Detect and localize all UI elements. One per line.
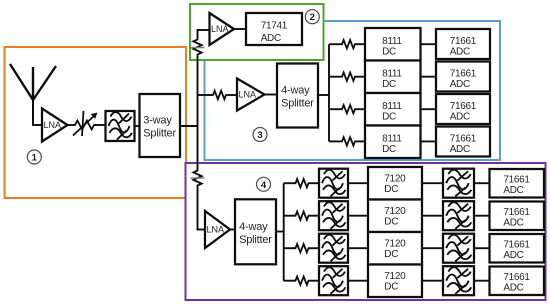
variable attenuator AT1	[73, 111, 96, 136]
wire R31 to DC1	[357, 43, 366, 45]
wire R4 to LNA4 input	[197, 187, 207, 230]
group box 1 (orange) region outline	[5, 47, 187, 198]
wire bus to R32	[329, 76, 340, 78]
ADC U32a 71661	[436, 62, 490, 92]
svg-text:DC: DC	[382, 47, 396, 58]
svg-text:71661: 71661	[503, 174, 530, 185]
svg-text:LNA: LNA	[211, 24, 229, 34]
group box 2 (green) region outline	[190, 4, 324, 60]
svg-text:DC: DC	[382, 144, 396, 155]
svg-text:71661: 71661	[450, 69, 477, 80]
wire DC to filter b	[422, 215, 444, 217]
svg-text:8111: 8111	[382, 101, 402, 112]
wire LNA3 to splitter	[264, 94, 278, 96]
svg-text:4-way: 4-way	[281, 85, 310, 97]
wire filter to splitter	[134, 125, 140, 127]
downconverter U34 8111 DC	[365, 126, 421, 159]
filter FL44a (band-pass)	[319, 266, 348, 295]
wire vertical distribution bus	[197, 56, 199, 171]
filter FL44b (band-pass)	[443, 266, 474, 295]
ADC U42a 71661	[490, 202, 545, 231]
svg-text:4-way: 4-way	[239, 221, 268, 233]
ADC U44a 71661	[490, 267, 545, 296]
wire DC2 to ADC2	[421, 76, 438, 78]
ADC U34a 71661	[436, 127, 490, 157]
resistor R32 (branch pad)	[340, 73, 357, 81]
circled label 4	[257, 177, 271, 191]
wire attenuator to filter	[95, 124, 106, 126]
svg-text:2: 2	[310, 12, 315, 23]
op-amp LNA3 (region 3 low-noise amp)	[237, 79, 265, 111]
svg-text:DC: DC	[384, 184, 398, 195]
wire bus to R41	[284, 182, 295, 184]
wire region 4 branch bus	[283, 183, 285, 281]
svg-text:Splitter: Splitter	[281, 98, 314, 110]
svg-text:LNA: LNA	[207, 225, 225, 235]
filter FL41a (band-pass)	[319, 169, 348, 198]
svg-text:LNA: LNA	[239, 90, 257, 100]
wire bus to R42	[284, 215, 295, 217]
filter FL42a (band-pass)	[319, 201, 348, 230]
antenna ANT1	[10, 64, 56, 125]
ADC U33a 71661	[436, 94, 490, 124]
wire LNA1 to attenuator	[66, 124, 74, 126]
wire bus to R33	[329, 108, 340, 110]
svg-text:Splitter: Splitter	[239, 234, 272, 246]
wire FL44a to DC	[348, 280, 369, 282]
downconverter U44 7120 DC	[368, 265, 422, 298]
svg-text:ADC: ADC	[503, 217, 523, 228]
wire LNA2 to ADC	[233, 28, 247, 30]
wire R32 to DC2	[357, 76, 366, 78]
3-way splitter SP1	[140, 94, 181, 157]
attenuator R4 cross line	[191, 177, 205, 179]
svg-text:ADC: ADC	[261, 33, 281, 44]
filter FL43b (band-pass)	[443, 234, 474, 263]
svg-text:71661: 71661	[450, 133, 477, 144]
svg-text:ADC: ADC	[450, 47, 470, 58]
wire LNA4 to splitter	[229, 229, 236, 231]
svg-text:71661: 71661	[503, 207, 530, 218]
wire FL42b to ADC	[474, 215, 490, 217]
svg-text:DC: DC	[384, 216, 398, 227]
svg-text:7120: 7120	[384, 173, 406, 184]
ADC U31a 71661	[436, 29, 490, 59]
resistor R44 (branch pad)	[294, 277, 311, 285]
svg-text:7120: 7120	[384, 271, 406, 282]
wire DC to filter b	[422, 280, 444, 282]
svg-text:8111: 8111	[382, 69, 402, 80]
svg-text:1: 1	[32, 153, 38, 164]
circled label 1	[27, 150, 41, 164]
filter FL41b (band-pass)	[443, 169, 474, 198]
resistor R2 (pad into LNA2)	[193, 38, 201, 57]
resistor R3 (input pad)	[211, 91, 228, 99]
resistor R42 (branch pad)	[294, 212, 311, 220]
op-amp LNA1 (region 1 low-noise amp)	[42, 109, 68, 142]
svg-text:3-way: 3-way	[143, 114, 172, 126]
svg-text:ADC: ADC	[450, 79, 470, 90]
op-amp LNA2 (region 2 low-noise amp)	[210, 13, 235, 45]
wire FL42a to DC	[348, 215, 369, 217]
resistor R43 (branch pad)	[294, 244, 311, 252]
wire bus to R3	[198, 94, 213, 96]
wire DC to filter b	[422, 247, 444, 249]
svg-text:3: 3	[257, 130, 262, 141]
svg-text:Splitter: Splitter	[143, 127, 176, 139]
downconverter U41 7120 DC	[368, 167, 422, 200]
wire DC4 to ADC4	[421, 140, 438, 142]
svg-text:ADC: ADC	[503, 282, 523, 293]
filter FL43a (band-pass)	[319, 234, 348, 263]
svg-text:ADC: ADC	[503, 185, 523, 196]
svg-text:ADC: ADC	[450, 112, 470, 123]
downconverter U31 8111 DC	[365, 28, 421, 61]
wire FL44b to ADC	[474, 280, 490, 282]
svg-text:71661: 71661	[450, 101, 477, 112]
wire FL41b to ADC	[474, 182, 490, 184]
svg-text:ADC: ADC	[450, 144, 470, 155]
wire bus to R43	[284, 247, 295, 249]
group box 3 (blue) region outline	[205, 21, 501, 160]
svg-text:71741: 71741	[261, 21, 288, 32]
4-way splitter SP3	[277, 64, 318, 128]
wire R33 to DC3	[357, 108, 366, 110]
wire region 3 branch bus	[328, 44, 330, 141]
resistor R33 (branch pad)	[340, 105, 357, 113]
wire R41 to filter a	[310, 182, 320, 184]
ADC U41a 71661	[490, 169, 545, 198]
wire R34 to DC4	[357, 140, 366, 142]
wire R44 to filter a	[310, 280, 320, 282]
wire SP4 output to branch bus	[276, 231, 284, 233]
svg-text:ADC: ADC	[503, 250, 523, 261]
downconverter U33 8111 DC	[365, 93, 421, 126]
resistor R34 (branch pad)	[340, 137, 357, 145]
svg-text:71661: 71661	[503, 239, 530, 250]
svg-text:7120: 7120	[384, 206, 406, 217]
svg-text:7120: 7120	[384, 238, 406, 249]
downconverter U32 8111 DC	[365, 61, 421, 94]
resistor R31 (branch pad)	[340, 40, 357, 48]
wire bus to R31	[329, 43, 340, 45]
wire FL43a to DC	[348, 247, 369, 249]
svg-text:71661: 71661	[503, 272, 530, 283]
svg-text:71661: 71661	[450, 36, 477, 47]
wire bus to R44	[284, 280, 295, 282]
svg-text:8111: 8111	[382, 134, 402, 145]
attenuator AT1 arrow	[73, 113, 98, 136]
wire antenna to LNA	[32, 124, 42, 126]
wire R42 to filter a	[310, 215, 320, 217]
svg-text:DC: DC	[384, 249, 398, 260]
wire splitter SP1 output to bus	[180, 125, 199, 127]
svg-text:8111: 8111	[382, 36, 402, 47]
svg-text:LNA: LNA	[44, 120, 62, 130]
wire R43 to filter a	[310, 247, 320, 249]
wire FL43b to ADC	[474, 247, 490, 249]
resistor R41 (branch pad)	[294, 179, 311, 187]
wire DC1 to ADC1	[421, 43, 438, 45]
svg-text:4: 4	[261, 180, 267, 191]
wire FL41a to DC	[348, 182, 369, 184]
filter FL1 (band-pass)	[106, 111, 135, 141]
wire DC3 to ADC3	[421, 108, 438, 110]
4-way splitter SP4	[235, 199, 276, 264]
resistor R4 (pad into LNA4)	[193, 169, 201, 188]
ADC U43a 71661	[490, 234, 545, 263]
downconverter U43 7120 DC	[368, 232, 422, 265]
op-amp LNA4 (region 4 low-noise amp)	[205, 211, 230, 248]
group box 4 (purple) region outline	[186, 163, 546, 300]
ADC U2 71741	[246, 13, 302, 45]
wire bus to R34	[329, 140, 340, 142]
svg-text:DC: DC	[382, 112, 396, 123]
filter FL42b (band-pass)	[443, 201, 474, 230]
circled label 2	[305, 10, 319, 24]
downconverter U42 7120 DC	[368, 200, 422, 233]
wire R2 to LNA2 input	[197, 30, 211, 38]
circled label 3	[253, 128, 267, 142]
wire DC to filter b	[422, 182, 444, 184]
svg-text:DC: DC	[384, 281, 398, 292]
wire R3 to LNA3	[228, 94, 238, 96]
wire SP3 output to branch bus	[318, 94, 330, 96]
attenuator R2 cross line	[191, 47, 205, 49]
svg-text:DC: DC	[382, 79, 396, 90]
